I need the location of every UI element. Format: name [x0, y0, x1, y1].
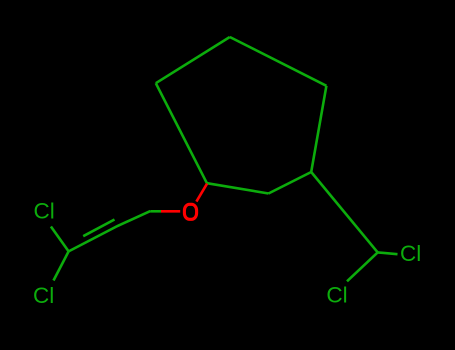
svg-text:Cl: Cl — [34, 199, 55, 224]
svg-text:Cl: Cl — [33, 283, 54, 308]
wire ring edge P5-P6 — [156, 83, 207, 183]
bond CH2-CH left chain — [69, 211, 151, 251]
bond O-CH2 red half — [161, 210, 180, 213]
wire ring edge P4-P5 — [207, 183, 269, 193]
bond C-Cl to upper left Cl — [51, 227, 69, 252]
wire ring edge P6-P1 — [156, 37, 230, 83]
bond C-Cl to lower left Cl — [54, 251, 69, 280]
wire ring edge P1-P2 — [230, 37, 327, 86]
bond ring-CH2 right chain — [311, 172, 378, 252]
svg-text:Cl: Cl — [400, 241, 421, 266]
wire ring edge P3-P4 — [269, 172, 312, 194]
bond O-CH2 green half — [150, 210, 161, 213]
bond C-Cl to right Cl — [378, 252, 398, 254]
bond O-C(ring) red — [196, 184, 207, 202]
bond C-Cl to bottom right Cl — [347, 252, 378, 281]
atom O (ether oxygen) — [184, 204, 196, 219]
ring C1-C6 (cyclohexene ring) — [156, 37, 327, 194]
wire ring edge P2-P3 — [311, 86, 326, 172]
double bond second stroke C=C left — [83, 220, 114, 237]
svg-text:Cl: Cl — [326, 283, 347, 308]
